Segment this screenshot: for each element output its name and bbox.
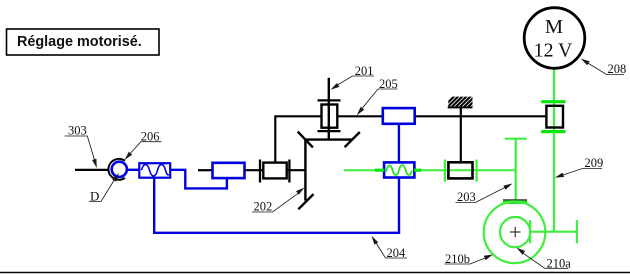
green coupling bar upper <box>541 100 565 103</box>
label D with leader <box>89 173 119 203</box>
blue vertical from 205 down <box>398 124 400 163</box>
svg-text:12 V: 12 V <box>534 40 573 62</box>
svg-text:303: 303 <box>68 124 87 138</box>
green thick stub left of sine box <box>375 169 385 172</box>
worm gear rectangle 201 <box>322 105 338 128</box>
hatched fixed support <box>442 96 488 109</box>
svg-text:Réglage motorisé.: Réglage motorisé. <box>17 34 142 50</box>
green motor shaft vertical 209 <box>553 68 555 231</box>
follower rod horizontal <box>530 231 577 233</box>
plus cross at cam centre <box>510 227 521 238</box>
top bus black segment worm to box 205 <box>337 115 383 117</box>
wire blue step from coupling to gearbox 204 input <box>170 170 227 189</box>
bearing bar left of gear <box>259 160 261 183</box>
green tick left of box 203 <box>444 160 446 182</box>
bevel tooth diagonal left <box>298 132 313 148</box>
green coupling bar lower <box>541 130 565 133</box>
label 210a with leader <box>517 248 572 271</box>
shaft through gear 202 assembly <box>245 169 306 171</box>
label 201 with leader <box>331 64 375 90</box>
support stem down to box 203 <box>460 108 462 163</box>
box 205 blue <box>383 108 415 124</box>
bevel tooth diagonal bottom <box>298 194 313 209</box>
label 209 with leader <box>555 156 603 178</box>
label 303 with leader <box>65 124 97 169</box>
bevel vertical shaft 202 <box>304 140 306 201</box>
cam outer circle 210b <box>484 202 546 264</box>
bearing bar right of gear <box>288 160 290 183</box>
main green line right segment <box>414 169 515 171</box>
label 202 with leader <box>252 188 305 214</box>
box 203 black <box>448 162 472 178</box>
green tick right of box 203 <box>476 160 478 182</box>
wire blue link 206 to flexible coupling <box>127 169 140 171</box>
flexible coupling box with wave (after 206) <box>139 163 170 178</box>
bottom blue bus 204 <box>153 178 399 233</box>
bottom border line <box>0 272 630 274</box>
worm shaft vertical 201 <box>328 78 330 140</box>
motor coupling box black <box>546 106 563 128</box>
motor circle M 12V <box>524 8 585 69</box>
label 208 with leader <box>581 59 626 77</box>
svg-text:M: M <box>545 16 563 38</box>
label 210b with leader <box>445 252 494 266</box>
wire input shaft left (node 303) <box>75 169 108 171</box>
green thick stub right of sine box <box>414 169 421 172</box>
rack bar on cam top (black edge + green bar) <box>503 200 527 202</box>
black stub left of blue gear box <box>198 169 213 171</box>
bevel gear pair horizontal line <box>305 138 351 140</box>
worm lower tick <box>318 130 341 132</box>
arc bearing around coupling D <box>108 159 125 180</box>
svg-text:209: 209 <box>585 156 604 170</box>
main green line left segment <box>344 169 384 171</box>
label 203 with leader <box>456 184 513 205</box>
green sine coupling box <box>384 162 414 177</box>
blue gear box (empty rect) <box>213 163 245 178</box>
follower end bar <box>576 220 578 243</box>
green vertical link rod (203 arrow target) <box>505 139 527 200</box>
coupling circle 206 <box>112 162 127 177</box>
blue vertical from flexible coupling down to bottom bus <box>153 178 155 233</box>
follower flat bar tangent to inner circle <box>529 220 531 243</box>
worm upper tick <box>318 99 341 101</box>
gear rectangle on horizontal shaft <box>263 163 286 179</box>
svg-text:D: D <box>90 188 99 203</box>
top bus black segment 205 to motor coupling <box>415 115 547 117</box>
label 204 with leader <box>372 236 408 260</box>
riser wire from gear up to top bus <box>275 116 321 162</box>
title box <box>7 29 160 55</box>
label 206 with leader <box>125 130 162 160</box>
label 205 with leader <box>357 77 398 115</box>
cam inner circle 210a <box>500 217 530 247</box>
bevel tooth diagonal right <box>345 132 360 147</box>
svg-text:202: 202 <box>254 200 273 214</box>
